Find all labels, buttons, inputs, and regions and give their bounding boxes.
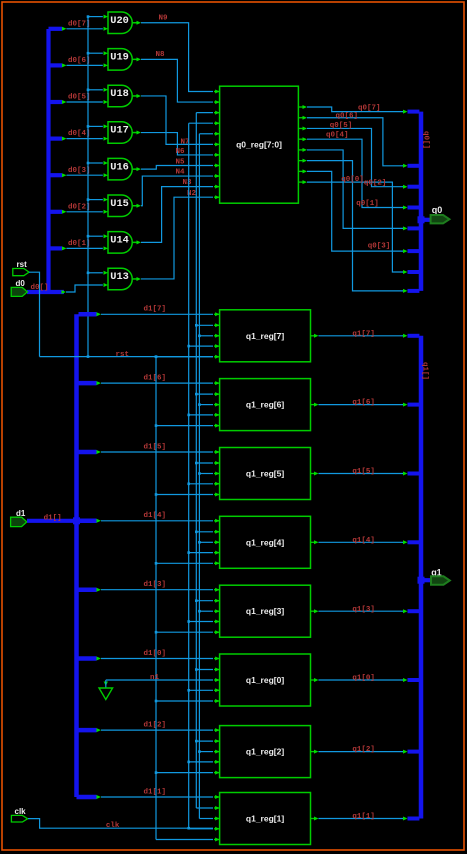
- svg-text:q1_reg[0]: q1_reg[0]: [246, 675, 284, 685]
- svg-text:U20: U20: [110, 15, 129, 27]
- q0_reg output pin 7: [298, 170, 302, 172]
- svg-text:q1_reg[1]: q1_reg[1]: [246, 814, 284, 824]
- junction: [198, 610, 201, 613]
- q0_reg output pin 2: [298, 117, 302, 119]
- AND gate U13: [108, 268, 132, 290]
- bus tap d0[6]: [51, 63, 63, 67]
- port rst symbol: [13, 269, 29, 276]
- bus q1 tap q1[2]: [408, 750, 420, 754]
- AND gate U18: [108, 85, 132, 107]
- bus q0 tap 4: [408, 206, 420, 210]
- junction rst vertical: [155, 355, 158, 358]
- svg-text:q1_reg[2]: q1_reg[2]: [246, 747, 284, 757]
- junction: [155, 700, 158, 703]
- gate U14 output pin: [133, 241, 137, 243]
- junction: [195, 324, 198, 327]
- AND gate U15: [108, 195, 132, 217]
- wire q1[5] to q1 bus: [319, 473, 406, 475]
- block q1_reg[7] output pin: [311, 335, 315, 337]
- svg-text:N5: N5: [176, 158, 186, 166]
- block q1_reg[2] output pin: [311, 751, 315, 753]
- block q1_reg[4] output pin: [311, 541, 315, 543]
- bus tap d1[7]: [79, 312, 97, 317]
- bus q1 tap q1[4]: [408, 540, 420, 544]
- wire column B to q1_reg[4] pin2: [196, 531, 213, 533]
- svg-text:U13: U13: [110, 271, 129, 283]
- q0_reg input pin 6 arrow: [214, 143, 220, 145]
- wire column C to q1_reg[6] pin3: [199, 404, 213, 406]
- wire clk column A to q1_reg[1] pin4: [189, 828, 213, 830]
- wire d1[4] to q1_reg[4] pin1: [101, 520, 213, 522]
- wire column B to q1_reg[0] pin2: [196, 669, 213, 671]
- q0_reg input pin 10 arrow: [214, 186, 220, 188]
- AND gate U16: [108, 158, 132, 180]
- vertical wire clk column A: [188, 123, 190, 828]
- vertical wire column B: [195, 113, 197, 808]
- junction: [198, 750, 201, 753]
- svg-text:clk: clk: [106, 822, 120, 830]
- wire rst column to q1_reg[5] pin5: [156, 494, 213, 496]
- register block q1_reg[2]: [220, 726, 311, 778]
- wire q1 port stub: [421, 578, 436, 582]
- port d0 symbol: [11, 287, 27, 296]
- wire d0[1] to U14 lower input: [67, 247, 103, 249]
- wire q0 bit route out6 to bus tap8: [307, 161, 405, 291]
- svg-text:q0[0]: q0[0]: [341, 176, 364, 184]
- wire N9 (U20 out to q0_reg pin1): [141, 23, 213, 92]
- svg-text:d1[1]: d1[1]: [144, 788, 167, 796]
- q0_reg input pin 3 arrow: [214, 112, 220, 114]
- gate U17 input pin arrows: [104, 124, 109, 128]
- junction: [198, 335, 201, 338]
- wire column B to q1_reg[5] pin2: [196, 462, 213, 464]
- junction: [155, 493, 158, 496]
- wire column C to q1_reg[4] pin3: [199, 541, 213, 543]
- port d1 symbol: [11, 517, 27, 526]
- bus q1 tap q1[7]: [408, 334, 420, 338]
- gate U17 output pin: [133, 132, 137, 134]
- wire column B to q1_reg[2] pin2: [196, 740, 213, 742]
- junction: [198, 403, 201, 406]
- wire q1[6] to q1 bus: [319, 404, 406, 406]
- svg-text:q1[0]: q1[0]: [352, 675, 375, 683]
- wire N3 (U14 out to q0_reg pin10): [141, 187, 213, 243]
- junction on rst column at U20: [87, 15, 90, 18]
- gate U13 input pin arrows: [104, 271, 109, 275]
- svg-text:q1_reg[3]: q1_reg[3]: [246, 606, 284, 616]
- vertical wire column C: [198, 134, 200, 819]
- q0_reg output pin 6: [298, 160, 302, 162]
- wire rst-column to U16 upper input: [88, 162, 103, 164]
- wire d0[6] to U19 lower input: [67, 64, 103, 66]
- wire rst horizontal to q1_reg[7] pin5: [40, 356, 214, 358]
- wire q0 bit route out3 to bus tap3: [307, 128, 405, 186]
- gate U15 output pin: [133, 205, 137, 207]
- junction: [198, 472, 201, 475]
- junction: [195, 462, 198, 465]
- wire rst column to q1_reg[7] pin5: [156, 356, 213, 358]
- junction on rst column at U16: [87, 162, 90, 165]
- wire q1[3] to q1 bus: [319, 610, 406, 612]
- wire q0 bit route out4 to bus tap4: [307, 139, 405, 207]
- svg-text:q1[3]: q1[3]: [352, 606, 375, 614]
- block q1_reg[1] input pin arrows: [214, 796, 220, 798]
- wire q0 bit route out7 to bus tap6: [307, 171, 405, 251]
- wire rst-column to U20 upper input: [88, 16, 103, 18]
- q0_reg input pin 1 arrow: [214, 91, 220, 93]
- wire d1[0] to q1_reg[0] pin1: [101, 658, 213, 660]
- q0_reg input pin 9 arrow: [214, 175, 220, 177]
- wire q1[1] to q1 bus: [319, 818, 406, 820]
- wire q0_reg pin5 stub from column C: [199, 133, 213, 135]
- svg-text:d0[3]: d0[3]: [68, 167, 91, 175]
- block q1_reg[2] input pin arrows: [214, 729, 220, 731]
- bus q1 tap q1[6]: [408, 403, 420, 407]
- bus q1 tap q1[3]: [408, 609, 420, 613]
- wire d1[] from port to bus: [27, 519, 74, 523]
- wire column B to q1_reg[3] pin2: [196, 600, 213, 602]
- bus tap d1[5]: [79, 450, 97, 455]
- junction on rst column at U13: [87, 272, 90, 275]
- svg-text:d0[6]: d0[6]: [68, 57, 91, 65]
- junction clk at column A: [187, 827, 190, 830]
- bus q0 tap 1: [408, 110, 420, 114]
- wire rst column to q1_reg[0] pin5: [156, 700, 213, 702]
- wire N7 (U18 out to q0_reg pin6): [141, 96, 213, 144]
- register block q1_reg[0]: [220, 654, 311, 706]
- junction: [195, 740, 198, 743]
- wire clk column A to q1_reg[6] pin4: [189, 414, 213, 416]
- junction: [187, 689, 190, 692]
- q0_reg input pin 8 arrow: [214, 164, 220, 166]
- gate U16 output pin: [133, 168, 137, 170]
- bus tap d0[7] (bus top corner): [49, 27, 63, 31]
- svg-text:q1[5]: q1[5]: [352, 468, 375, 476]
- bus q0 tap 8: [408, 289, 420, 293]
- svg-text:d1: d1: [16, 509, 26, 518]
- bus tap d1[3]: [79, 587, 97, 592]
- bus tap d0[1]: [51, 246, 63, 250]
- wire clk column A to q1_reg[5] pin4: [189, 483, 213, 485]
- register block q1_reg[3]: [220, 585, 311, 637]
- gate U20 input pin arrows: [104, 15, 109, 19]
- wire column B to q1_reg[7] pin2: [196, 324, 213, 326]
- svg-text:N4: N4: [176, 169, 186, 177]
- register block q1_reg[6]: [220, 379, 311, 431]
- block q1_reg[7] input pin arrows: [214, 313, 220, 315]
- register block q0_reg[7:0]: [220, 86, 299, 203]
- junction: [187, 551, 190, 554]
- bus q1[] vertical: [419, 336, 424, 819]
- block q1_reg[1] output pin: [311, 818, 315, 820]
- block q1_reg[4] input pin arrows: [214, 520, 220, 522]
- wire q0_reg pin4 stub from column A: [189, 122, 213, 124]
- bus tap d0[4]: [51, 137, 63, 141]
- svg-text:U18: U18: [110, 88, 129, 100]
- svg-text:q1_reg[5]: q1_reg[5]: [246, 469, 284, 479]
- wire column B to q1_reg[6] pin2: [196, 393, 213, 395]
- q0_reg output pin 3: [298, 127, 302, 129]
- wire clk column A to q1_reg[0] pin4: [189, 689, 213, 691]
- svg-text:q1[6]: q1[6]: [352, 399, 375, 407]
- junction on rst column at U14: [87, 235, 90, 238]
- svg-text:N8: N8: [156, 51, 166, 59]
- wire d0[0] from bus foot to U13 lower input: [66, 285, 103, 292]
- wire column C to q1_reg[7] pin3: [199, 335, 213, 337]
- svg-text:q1[1]: q1[1]: [352, 813, 375, 821]
- junction: [198, 541, 201, 544]
- svg-text:d1[4]: d1[4]: [144, 512, 167, 520]
- bus tap d0[5]: [51, 100, 63, 104]
- wire column C to q1_reg[2] pin3: [199, 751, 213, 753]
- wire d0[7] to U20 lower input: [67, 28, 103, 30]
- q0_reg input pin 4 arrow: [214, 122, 220, 124]
- svg-text:d1[]: d1[]: [44, 515, 62, 523]
- wire clk column A to q1_reg[2] pin4: [189, 761, 213, 763]
- bus tap d1[6]: [79, 381, 97, 386]
- bus q0[] vertical: [419, 112, 424, 291]
- AND gate U20: [108, 12, 132, 34]
- junction: [187, 414, 190, 417]
- bus q1 tap q1[1]: [408, 817, 420, 821]
- junction: [155, 424, 158, 427]
- bus q1 tap q1[0]: [408, 678, 420, 682]
- svg-text:d0[7]: d0[7]: [68, 20, 91, 28]
- svg-text:d1[3]: d1[3]: [144, 581, 167, 589]
- svg-text:d1[6]: d1[6]: [144, 375, 167, 383]
- wire rst-column to U18 upper input: [88, 89, 103, 91]
- gate U15 input pin arrows: [104, 198, 109, 202]
- wire rst-column to U14 upper input: [88, 235, 103, 237]
- port q1 symbol: [431, 576, 450, 584]
- q0_reg input pin 7 arrow: [214, 154, 220, 156]
- wire rst-column to U13 upper input: [88, 272, 103, 274]
- junction rst at gates column: [87, 355, 90, 358]
- port clk symbol: [11, 815, 27, 822]
- register block q1_reg[7]: [220, 310, 311, 362]
- junction on rst column at U19: [87, 52, 90, 55]
- AND gate U14: [108, 232, 132, 254]
- wire n1 (ground to q1_reg[0] pin3): [106, 679, 213, 681]
- wire column C to q1_reg[1] pin3: [199, 818, 213, 820]
- port q0 symbol: [431, 215, 450, 223]
- svg-text:d1[5]: d1[5]: [144, 443, 167, 451]
- svg-text:q0_reg[7:0]: q0_reg[7:0]: [236, 139, 282, 149]
- wire q1[7] to q1 bus: [319, 335, 406, 337]
- wire d0[] horizontal from port d0: [27, 290, 64, 294]
- q0_reg output pin 5: [298, 149, 302, 151]
- block q1_reg[0] input pin arrows: [214, 658, 220, 660]
- svg-text:q0[6]: q0[6]: [336, 112, 359, 120]
- wire q0 bit route out5 to bus tap5: [307, 150, 405, 228]
- svg-text:d1[0]: d1[0]: [144, 650, 167, 658]
- block q1_reg[6] output pin: [311, 404, 315, 406]
- wire d1[2] to q1_reg[2] pin1: [101, 729, 213, 731]
- bus q0 tap 3: [408, 185, 420, 189]
- svg-text:q0[5]: q0[5]: [330, 122, 353, 130]
- wire q1[2] to q1 bus: [319, 751, 406, 753]
- ground symbol: [104, 682, 108, 687]
- block q1_reg[3] output pin: [311, 610, 315, 612]
- wire d1[6] to q1_reg[6] pin1: [101, 382, 213, 384]
- svg-text:rst: rst: [116, 351, 130, 359]
- junction: [187, 761, 190, 764]
- junction: [155, 356, 158, 359]
- wire d0[5] to U18 lower input: [67, 101, 103, 103]
- junction: [187, 345, 190, 348]
- register block q1_reg[5]: [220, 448, 311, 500]
- svg-text:d0[4]: d0[4]: [68, 130, 91, 138]
- junction: [155, 562, 158, 565]
- svg-text:q1[7]: q1[7]: [352, 330, 375, 338]
- svg-text:n1: n1: [150, 674, 160, 682]
- junction on rst column at U15: [87, 198, 90, 201]
- wire q0 port stub: [421, 218, 436, 222]
- svg-text:d1[7]: d1[7]: [144, 306, 167, 314]
- svg-text:U16: U16: [110, 161, 129, 173]
- svg-text:N3: N3: [183, 179, 193, 187]
- svg-text:U14: U14: [110, 235, 129, 247]
- svg-text:q0[4]: q0[4]: [326, 131, 349, 139]
- block q1_reg[3] input pin arrows: [214, 589, 220, 591]
- svg-text:U19: U19: [110, 52, 129, 64]
- wire d0[4] to U17 lower input: [67, 138, 103, 140]
- wire d0[2] to U15 lower input: [67, 211, 103, 213]
- register block q1_reg[4]: [220, 516, 311, 568]
- wire column C to q1_reg[3] pin3: [199, 610, 213, 612]
- wire d1[7] to q1_reg[7] pin1: [101, 313, 213, 315]
- wire rst-column to U17 upper input: [88, 125, 103, 127]
- svg-text:d0[2]: d0[2]: [68, 203, 91, 211]
- junction: [195, 531, 198, 534]
- svg-text:N6: N6: [176, 148, 186, 156]
- gate U18 output pin: [133, 95, 137, 97]
- junction: [155, 771, 158, 774]
- wire q0 bit route out8 to bus tap7: [307, 182, 405, 272]
- wire q0 bit route out2 to bus tap2: [307, 118, 405, 166]
- wire N2 (U13 out to q0_reg pin11): [141, 197, 213, 279]
- wire N8 (U19 out to q0_reg pin2): [141, 59, 213, 102]
- svg-text:N9: N9: [159, 15, 169, 23]
- svg-text:q0[]: q0[]: [422, 131, 430, 149]
- junction: [187, 483, 190, 486]
- wire d0[3] to U16 lower input: [67, 174, 103, 176]
- svg-text:q0[7]: q0[7]: [358, 105, 381, 113]
- svg-text:q0[3]: q0[3]: [368, 242, 391, 250]
- wire q0_reg pin3 stub from column B: [196, 112, 213, 114]
- bus q0 tap 2: [408, 164, 420, 168]
- wire q1[0] to q1 bus: [319, 679, 406, 681]
- wire rst column to q1_reg[3] pin5: [156, 631, 213, 633]
- svg-text:d0[1]: d0[1]: [68, 240, 91, 248]
- svg-text:q1_reg[6]: q1_reg[6]: [246, 400, 284, 410]
- wire clk column A to q1_reg[7] pin4: [189, 345, 213, 347]
- q0_reg input pin 11 arrow: [214, 196, 220, 198]
- wire rst column to q1_reg[4] pin5: [156, 562, 213, 564]
- bus tap d0[2]: [51, 210, 63, 214]
- block q1_reg[5] input pin arrows: [214, 451, 220, 453]
- svg-text:d1[2]: d1[2]: [144, 722, 167, 730]
- AND gate U17: [108, 122, 132, 144]
- wire rst-column to U19 upper input: [88, 52, 103, 54]
- wire d1[5] to q1_reg[5] pin1: [101, 451, 213, 453]
- svg-text:q1[]: q1[]: [421, 362, 429, 380]
- wire q1[4] to q1 bus: [319, 541, 406, 543]
- vertical wire rst column (gates upper inputs): [87, 17, 89, 357]
- bus q0 tap 6: [408, 249, 420, 253]
- junction on rst column at U18: [87, 89, 90, 92]
- wire d1[3] to q1_reg[3] pin1: [101, 589, 213, 591]
- block q1_reg[5] output pin: [311, 473, 315, 475]
- q0_reg output pin 8: [298, 181, 302, 183]
- svg-text:q1[4]: q1[4]: [352, 537, 375, 545]
- wire column C to q1_reg[5] pin3: [199, 473, 213, 475]
- svg-text:d0[5]: d0[5]: [68, 94, 91, 102]
- gate U20 output pin: [133, 22, 137, 24]
- junction on rst column at U17: [87, 125, 90, 128]
- junction: [195, 599, 198, 602]
- junction d1 port wire on bus: [73, 517, 80, 524]
- gate U16 input pin arrows: [104, 161, 109, 165]
- wire rst column to q1_reg[1] pin5: [156, 839, 213, 841]
- svg-text:q1[2]: q1[2]: [352, 746, 375, 754]
- q0_reg output pin 1: [298, 106, 302, 108]
- bus tap d0[3]: [51, 173, 63, 177]
- bus tap d1[2]: [79, 728, 97, 733]
- bus q0 tap 5: [408, 226, 420, 230]
- junction q0 bus to port: [418, 216, 425, 223]
- svg-text:U17: U17: [110, 125, 129, 137]
- wire N6 (U17 out to q0_reg pin7): [141, 133, 213, 155]
- register block q1_reg[1]: [220, 793, 311, 845]
- wire clk column A to q1_reg[3] pin4: [189, 621, 213, 623]
- wire q0 bit route out1 to bus tap1: [307, 107, 405, 112]
- gate U13 output pin: [133, 278, 137, 280]
- bus d1[] vertical: [74, 314, 79, 797]
- gate U14 input pin arrows: [104, 234, 109, 238]
- wire clk column A to q1_reg[4] pin4: [189, 552, 213, 554]
- wire N4 (U15 out to q0_reg pin9): [141, 176, 213, 206]
- bus q1 tap q1[5]: [408, 472, 420, 476]
- wire rst column to q1_reg[2] pin5: [156, 772, 213, 774]
- AND gate U19: [108, 49, 132, 71]
- bus tap d1[1]: [77, 795, 97, 800]
- block q1_reg[0] output pin: [311, 679, 315, 681]
- gate U18 input pin arrows: [104, 88, 109, 92]
- block q1_reg[6] input pin arrows: [214, 382, 220, 384]
- bus q0 tap 7: [408, 270, 420, 274]
- wire N5 (U16 out to q0_reg pin8): [141, 165, 213, 169]
- svg-text:q1_reg[7]: q1_reg[7]: [246, 331, 284, 341]
- node d0[] bus-corner arrow: [62, 290, 67, 294]
- svg-text:clk: clk: [15, 807, 27, 816]
- junction: [155, 631, 158, 634]
- junction q1 bus to port: [418, 577, 425, 584]
- svg-text:U15: U15: [110, 198, 129, 210]
- wire rst-column to U15 upper input: [88, 199, 103, 201]
- junction: [195, 393, 198, 396]
- bus d0[] vertical: [46, 29, 50, 292]
- gate U19 input pin arrows: [104, 51, 109, 55]
- vertical wire rst distribution: [155, 357, 157, 840]
- wire rst column to q1_reg[6] pin5: [156, 425, 213, 427]
- q0_reg output pin 4: [298, 138, 302, 140]
- wire clk from port: [28, 819, 213, 829]
- q0_reg input pin 5 arrow: [214, 133, 220, 135]
- wire column B to q1_reg[1] pin2: [196, 807, 213, 809]
- svg-text:q0[2]: q0[2]: [364, 179, 387, 187]
- bus tap d1[0]: [79, 656, 97, 661]
